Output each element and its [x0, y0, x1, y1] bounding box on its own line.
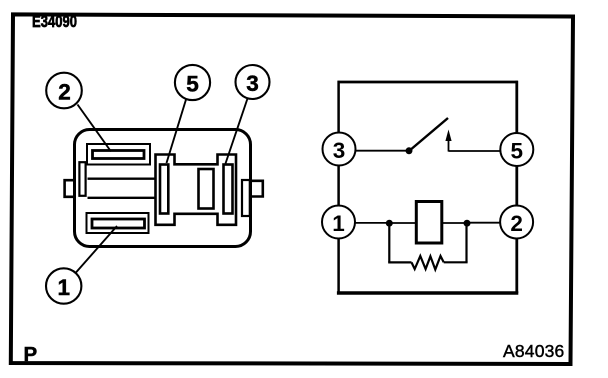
wire node 1 to left junction	[352, 222, 390, 224]
schematic node 2	[500, 206, 533, 239]
relay left mounting tab	[65, 180, 76, 197]
schematic node 3	[323, 133, 356, 166]
svg-text:E34090: E34090	[32, 12, 77, 31]
switch pivot junction dot	[406, 147, 413, 154]
callout circle 5	[175, 65, 210, 100]
center blade slot	[199, 169, 214, 209]
svg-text:A84036: A84036	[503, 341, 565, 361]
resistor branch left drop wire	[388, 223, 390, 262]
leader line to terminal 5	[167, 100, 187, 164]
terminal 1 cavity outline	[87, 213, 149, 233]
divider band upper line	[88, 178, 156, 180]
center terminal block outline	[156, 155, 237, 225]
callout circle 1	[46, 268, 81, 303]
terminal 5 blade slot	[160, 165, 168, 214]
svg-text:1: 1	[57, 275, 70, 300]
svg-text:P: P	[24, 343, 38, 366]
resistor R	[412, 256, 444, 270]
terminal 2 blade slot	[93, 151, 145, 159]
relay coil	[416, 202, 442, 244]
schematic node 5	[500, 133, 533, 166]
left junction dot	[386, 220, 393, 227]
switch blade	[409, 118, 448, 151]
relay connector body	[75, 130, 251, 247]
callout circle 3	[236, 65, 270, 99]
schematic outer loop bottom wire	[337, 291, 518, 295]
schematic outer loop left wire	[337, 81, 340, 293]
svg-text:3: 3	[246, 71, 259, 96]
resistor branch bottom right wire	[444, 261, 468, 263]
resistor branch right rise wire	[465, 223, 467, 262]
terminal 2 cavity outline	[87, 144, 150, 165]
svg-text:2: 2	[58, 80, 71, 105]
wire left junction to coil	[389, 222, 416, 224]
wire coil to right junction	[442, 222, 467, 224]
left edge slot	[79, 162, 85, 196]
wire node 3 to switch contact	[352, 150, 409, 152]
svg-text:2: 2	[510, 211, 523, 236]
svg-text:3: 3	[333, 138, 346, 163]
leader line to terminal 3	[226, 99, 248, 164]
svg-text:5: 5	[511, 139, 524, 164]
switch actuation arrow head	[445, 130, 451, 142]
right edge slot	[242, 180, 250, 216]
terminal 3 blade slot	[224, 165, 233, 214]
wire switch to node 5	[449, 150, 504, 152]
callout circle 2	[46, 73, 82, 109]
svg-text:5: 5	[186, 72, 199, 97]
schematic outer loop top wire	[338, 81, 518, 84]
resistor branch bottom left wire	[388, 261, 411, 263]
schematic outer loop right wire	[515, 81, 518, 293]
right junction dot	[464, 220, 471, 227]
wire right junction to node 2	[467, 222, 503, 224]
schematic node 1	[322, 206, 355, 239]
leader line to terminal 2	[78, 105, 112, 152]
divider band lower line	[88, 197, 156, 199]
terminal 1 blade slot	[92, 219, 145, 228]
switch actuation arrow shaft	[448, 136, 450, 152]
svg-text:1: 1	[332, 211, 345, 236]
relay right mounting tab	[250, 181, 263, 197]
leader line to terminal 1	[76, 226, 118, 273]
